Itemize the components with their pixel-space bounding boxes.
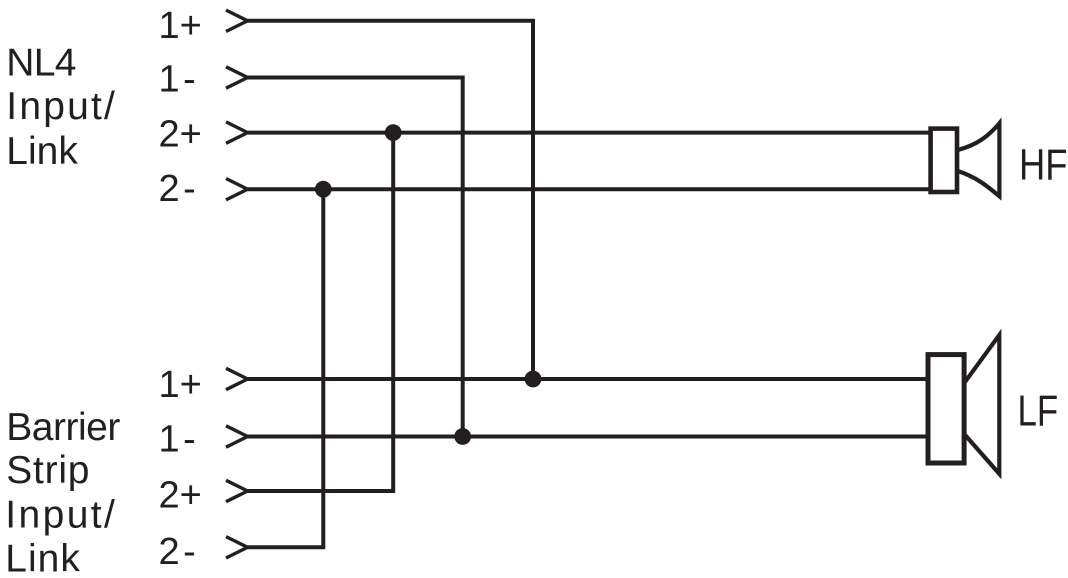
junction dot on NL4 2+ at x=393 bbox=[385, 124, 402, 141]
HF horn flare bbox=[957, 123, 999, 196]
svg-text:1-: 1- bbox=[159, 59, 196, 101]
label NL4 Input/Link bbox=[6, 42, 117, 174]
svg-text:2+: 2+ bbox=[159, 114, 202, 156]
svg-text:Input/: Input/ bbox=[5, 494, 117, 537]
svg-text:2-: 2- bbox=[159, 531, 196, 573]
junction dot on barrier 1+ at x=533 bbox=[525, 371, 542, 388]
connector arrow NL4 1- bbox=[226, 67, 248, 88]
svg-text:NL4: NL4 bbox=[6, 42, 75, 85]
svg-text:HF: HF bbox=[1019, 142, 1068, 190]
LF driver rectangle bbox=[928, 355, 964, 463]
wire NL4 2- to HF bbox=[248, 187, 931, 191]
wire barrier 1- to LF bbox=[248, 435, 930, 439]
connector arrow Barrier 2- bbox=[226, 537, 248, 558]
junction dot on NL4 2- at x=323 bbox=[315, 181, 332, 198]
wire barrier 2- up to NL4 2- junction bbox=[248, 189, 324, 547]
junction dot on barrier 1- at x=463 bbox=[454, 428, 471, 445]
svg-text:Link: Link bbox=[5, 538, 81, 578]
wire barrier 1+ to LF bbox=[248, 377, 930, 381]
connector arrow NL4 2+ bbox=[226, 122, 248, 143]
svg-text:Strip: Strip bbox=[6, 449, 90, 492]
LF cone bbox=[964, 335, 999, 474]
connector arrow NL4 2- bbox=[226, 179, 248, 200]
wire barrier 2+ up to NL4 2+ junction bbox=[248, 133, 394, 491]
svg-text:2+: 2+ bbox=[159, 475, 202, 517]
svg-text:Link: Link bbox=[6, 130, 78, 173]
svg-text:2-: 2- bbox=[159, 168, 196, 210]
svg-text:1-: 1- bbox=[159, 419, 196, 461]
connector arrow NL4 1+ bbox=[226, 10, 248, 31]
wire NL4 1+ to barrier 1+ junction bbox=[248, 21, 533, 379]
connector arrow Barrier 2+ bbox=[226, 480, 248, 501]
wire NL4 1- to barrier 1- junction bbox=[248, 78, 463, 437]
connector arrow Barrier 1- bbox=[226, 426, 248, 447]
svg-text:LF: LF bbox=[1018, 388, 1059, 436]
connector arrow Barrier 1+ bbox=[226, 368, 248, 389]
svg-text:Barrier: Barrier bbox=[6, 406, 120, 449]
HF driver rectangle bbox=[931, 129, 957, 192]
svg-text:Input/: Input/ bbox=[6, 85, 117, 128]
label Barrier Strip Input/Link bbox=[5, 406, 120, 578]
svg-text:1+: 1+ bbox=[159, 364, 202, 406]
wire NL4 2+ to HF bbox=[248, 131, 931, 135]
svg-text:1+: 1+ bbox=[159, 5, 202, 47]
